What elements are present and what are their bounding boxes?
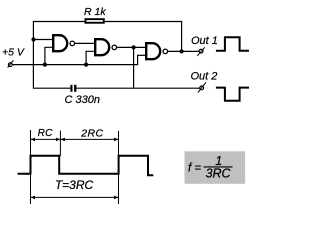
wire +5V rail [12, 64, 137, 66]
wire U2 output to U3 [117, 46, 146, 48]
output bubble U1 [70, 41, 75, 46]
formula fraction bar [204, 166, 233, 168]
nand gate U1 [53, 35, 67, 51]
dimension line 2RC [60, 138, 118, 140]
formula box [185, 151, 246, 184]
timing waveform [18, 156, 154, 176]
wire +5V rail corner up [137, 55, 139, 65]
wire U2 bottom input L [86, 51, 95, 64]
output bubble U3 [163, 49, 168, 54]
output bubble U2 [112, 45, 117, 50]
svg-text:f =: f = [188, 162, 201, 174]
dimension line RC [31, 138, 61, 140]
timing diagram extension line right [118, 131, 120, 204]
wire bottom rail right of C [76, 87, 200, 89]
svg-text:RC: RC [38, 128, 54, 139]
arrowhead RC left [31, 138, 36, 142]
junction node U2 bottom input on +5V rail [84, 63, 88, 67]
wire U1 top input [33, 39, 53, 41]
svg-text:+5 V: +5 V [2, 47, 25, 59]
junction node Out 1 branch [180, 49, 184, 53]
wire left vertical rail [32, 22, 34, 89]
terminal +5V [8, 60, 14, 67]
svg-text:3RC: 3RC [206, 167, 232, 181]
nand gate U3 [146, 43, 160, 59]
terminal Out 2 [198, 82, 206, 92]
dimension line T=3RC [31, 196, 119, 198]
svg-text:C 330n: C 330n [65, 94, 100, 106]
arrowhead T left [31, 196, 36, 200]
resistor R1 body [86, 19, 104, 23]
junction node U2 output feedback [132, 45, 136, 49]
svg-text:T=3RC: T=3RC [55, 178, 94, 192]
wire top rail [33, 21, 182, 23]
svg-text:Out 1: Out 1 [191, 35, 218, 47]
arrowhead RC right [56, 138, 61, 142]
wire feedback vertical [133, 47, 135, 88]
wire U3 output to Out 1 [168, 50, 199, 52]
capacitor C1 plate left [70, 85, 72, 92]
terminal Out 1 [197, 47, 205, 56]
svg-text:R 1k: R 1k [84, 6, 106, 18]
arrowhead 2RC right [114, 138, 119, 142]
wire U1 bottom input L [45, 47, 53, 64]
junction node U1 bottom input on +5V rail [43, 63, 47, 67]
svg-text:2RC: 2RC [80, 127, 103, 139]
svg-text:Out 2: Out 2 [191, 70, 218, 82]
wire right vertical to Out 1 node [181, 22, 183, 52]
arrowhead T right [114, 196, 119, 200]
waveform icon Out 1 [216, 37, 249, 51]
nand gate U2 [95, 39, 109, 55]
junction node at U1 top input [31, 37, 35, 41]
wire +5V rail to U3 input [137, 54, 146, 56]
capacitor C1 plate right [74, 85, 76, 92]
timing diagram extension line middle [59, 131, 61, 157]
arrowhead 2RC left [60, 138, 65, 142]
timing diagram extension line left [30, 130, 32, 204]
waveform icon Out 2 [216, 88, 249, 101]
wire bottom rail left of C [33, 87, 71, 89]
wire U1 output to U2 [75, 42, 95, 44]
